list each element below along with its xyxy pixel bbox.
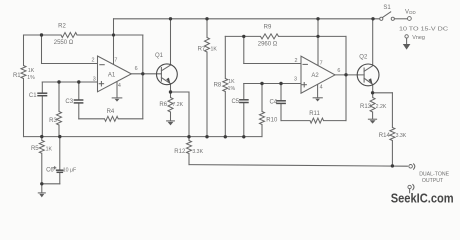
svg-text:R5: R5 [31,146,39,152]
svg-text:R1: R1 [13,73,21,79]
svg-text:OUTPUT: OUTPUT [422,178,444,184]
svg-text:R6: R6 [159,102,167,108]
svg-text:Q2: Q2 [359,54,368,60]
svg-text:R9: R9 [264,25,272,31]
svg-text:R14: R14 [379,133,391,139]
svg-text:2960 Ω: 2960 Ω [258,41,278,47]
svg-text:R12: R12 [174,149,186,155]
svg-text:C3: C3 [65,99,73,105]
svg-text:4: 4 [320,85,323,91]
svg-text:1%: 1% [228,86,236,92]
svg-text:1K: 1K [46,146,53,152]
svg-text:R2: R2 [58,23,66,29]
svg-text:C5: C5 [231,99,239,105]
svg-text:C1: C1 [29,93,37,99]
svg-text:3.3K: 3.3K [192,149,203,155]
svg-text:R4: R4 [107,109,115,115]
svg-text:DD: DD [409,10,415,15]
svg-text:DUAL-TONE: DUAL-TONE [419,172,449,178]
svg-text:R3: R3 [49,118,57,124]
svg-text:C6: C6 [46,167,54,173]
svg-text:6: 6 [135,66,138,72]
svg-text:2: 2 [295,58,298,64]
svg-text:1K: 1K [211,47,218,53]
svg-text:1K: 1K [228,79,235,85]
svg-text:10 μF: 10 μF [63,168,76,174]
svg-text:A1: A1 [108,72,116,78]
svg-text:1K: 1K [28,68,35,74]
svg-text:3.3K: 3.3K [396,133,407,139]
svg-text:6: 6 [337,68,340,74]
svg-text:3: 3 [294,76,297,82]
svg-text:A2: A2 [311,73,319,79]
svg-text:2.2K: 2.2K [376,104,387,110]
svg-text:7: 7 [320,60,323,66]
svg-text:7.2K: 7.2K [172,102,183,108]
svg-text:10 TO 15-V DC: 10 TO 15-V DC [399,26,448,32]
svg-text:SeekIC.com: SeekIC.com [391,190,454,205]
svg-text:Q1: Q1 [155,53,164,59]
svg-text:R11: R11 [309,111,320,117]
svg-text:R13: R13 [360,104,372,110]
svg-text:S1: S1 [383,5,391,11]
svg-text:1%: 1% [27,75,35,81]
svg-text:R8: R8 [214,83,222,89]
svg-text:Vneg: Vneg [412,35,425,41]
svg-text:C4: C4 [269,100,277,106]
svg-text:2550 Ω: 2550 Ω [54,40,74,46]
svg-text:3: 3 [93,76,96,82]
svg-text:R10: R10 [266,118,278,124]
svg-text:R7: R7 [198,46,206,52]
svg-text:2: 2 [92,57,95,63]
svg-text:7: 7 [114,57,117,63]
svg-text:4: 4 [118,83,121,89]
